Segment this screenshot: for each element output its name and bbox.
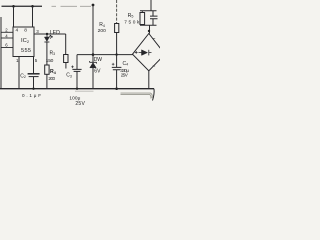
wire stub to IC pin 6	[1, 47, 13, 49]
wire C3 to ground rail	[76, 71, 78, 88]
node junction dot on top rail (pin 8 drop)	[31, 5, 34, 8]
wire supply node horizontal	[77, 54, 133, 56]
wire from top rail down to IC pin 4	[13, 6, 15, 27]
svg-text:LED: LED	[50, 30, 60, 36]
plus sign C4 polarity	[112, 63, 115, 66]
svg-text:6V: 6V	[94, 69, 101, 75]
wire from top rail down to IC pin 8	[32, 6, 34, 27]
wire down to bridge top vertex	[149, 25, 151, 33]
wire rail right end hook down	[153, 89, 155, 101]
svg-text:750k: 750k	[124, 20, 140, 26]
plus sign C3 polarity	[71, 66, 74, 69]
wire C2 to ground rail	[33, 77, 35, 89]
svg-text:25V: 25V	[121, 73, 129, 78]
svg-text:~: ~	[152, 37, 155, 43]
wire top rail left solid	[2, 5, 43, 7]
capacitor C5 stub and plates	[150, 11, 158, 25]
wire mains cord double line	[121, 93, 153, 98]
LED D1	[44, 34, 52, 42]
node dot pin5/C2 at rail	[32, 88, 34, 90]
wire left bus vertical	[0, 17, 2, 89]
wire R5 stubs	[141, 11, 143, 25]
resistor R4 box in LED branch	[45, 65, 49, 74]
wire stub below box	[65, 63, 67, 69]
wire zener branch from top dot down	[92, 5, 94, 62]
wire zener to ground rail	[92, 68, 94, 89]
wire bridge bottom vertex to ground rail	[148, 71, 150, 89]
wire bottom bar of R5/C5 pair	[140, 24, 157, 26]
small series box component	[64, 55, 68, 63]
capacitor C4 plates	[112, 67, 122, 69]
wire R4 to ground rail	[46, 74, 48, 88]
node dot top of zener branch	[92, 4, 95, 7]
wire stub to IC pin 4 (left)	[1, 37, 13, 39]
resistor R5 box	[140, 13, 145, 25]
bridge rectifier diamond	[133, 34, 166, 71]
svg-text:25V: 25V	[75, 101, 85, 107]
svg-text:200: 200	[48, 76, 55, 82]
capacitor C3 plates	[72, 69, 81, 71]
wire stub to IC pin 2	[1, 31, 13, 33]
node junction dot zener at supply node	[92, 53, 95, 56]
resistor R4 (right) box	[115, 24, 119, 33]
capacitor C3 stub from node	[76, 55, 78, 70]
wire C4 to ground rail	[116, 70, 118, 89]
wire top bar of R5/C5 pair	[140, 10, 157, 12]
svg-text:DW: DW	[94, 57, 103, 63]
wire IC pin 3 output horizontal	[34, 33, 66, 35]
svg-text:150: 150	[46, 58, 54, 64]
wire down to C4	[116, 55, 118, 68]
svg-text:~: ~	[152, 64, 155, 70]
plus sign bridge output	[135, 51, 138, 54]
node dot C3 at rail	[76, 88, 78, 90]
wire LED cathode down	[46, 42, 48, 65]
svg-text:200: 200	[98, 28, 106, 34]
node dot above bridge	[148, 30, 150, 32]
svg-text:IC2: IC2	[21, 38, 30, 44]
svg-text:8: 8	[24, 27, 27, 33]
node junction dot R4/C4 on supply node	[115, 53, 117, 55]
faint shadow line under rail	[75, 90, 94, 92]
wire output corner down	[65, 34, 67, 55]
bridge internal diode	[139, 50, 152, 56]
node junction dot at LED branch	[46, 33, 48, 35]
op-amp/timer IC2 555 box	[13, 27, 34, 57]
wire R4 box down to supply node	[116, 33, 118, 55]
wire ground rail bottom	[0, 88, 154, 90]
wire 220V input from top edge	[150, 0, 152, 11]
node dot C4 at ground rail	[115, 87, 118, 90]
wire R4 right branch from top edge (faint)	[116, 0, 118, 24]
zener diode DW	[90, 61, 97, 68]
svg-text:555: 555	[21, 48, 31, 54]
svg-text:4: 4	[16, 27, 19, 33]
capacitor C2	[28, 74, 40, 77]
wire IC pin 5 down to C2	[33, 57, 35, 74]
node junction dot on top rail (pin 4 drop)	[12, 5, 15, 8]
wire top rail faint middle fragments	[52, 5, 92, 7]
wire IC pin 1 to ground rail	[18, 57, 20, 89]
